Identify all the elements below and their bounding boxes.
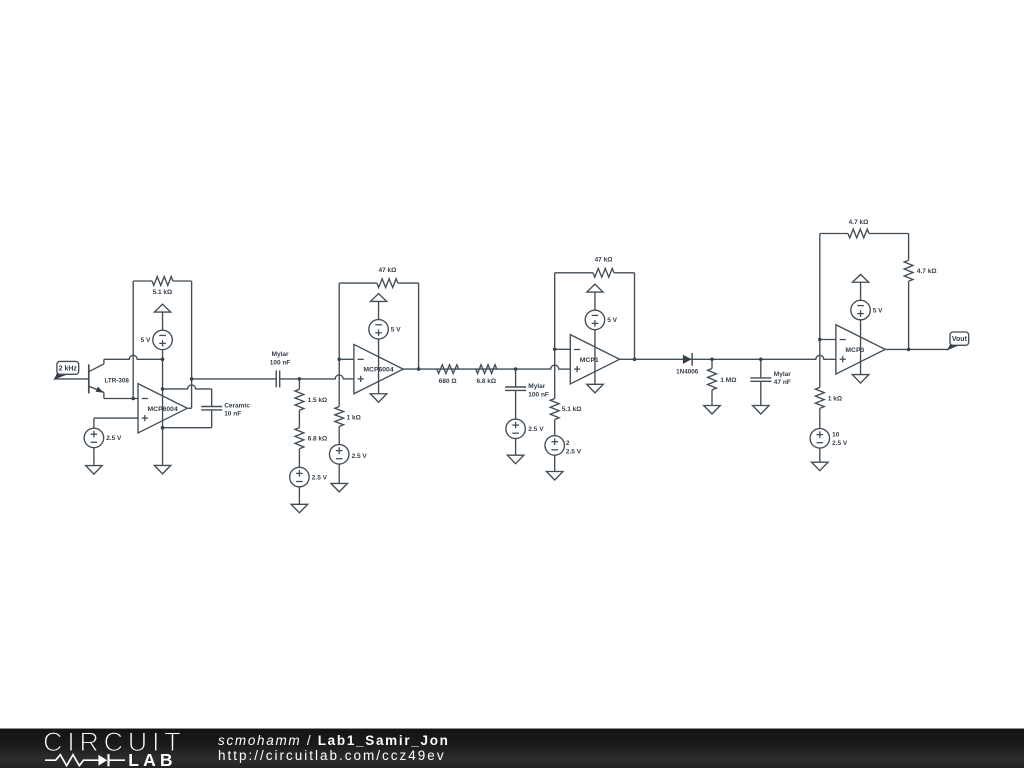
- label R6 value: [439, 378, 457, 385]
- op-amp U2 MCP6004: [354, 344, 403, 393]
- node junction bypass cap top: [161, 387, 165, 391]
- resistor R6 680 &#937;: [437, 365, 459, 374]
- CircuitLab logo LAB text: [128, 752, 177, 768]
- ground V8: [546, 472, 563, 481]
- resistor R12 1 k&#937;: [815, 387, 824, 428]
- VCC arrow stage 2: [370, 294, 386, 320]
- svg-text:MCP3: MCP3: [845, 347, 864, 354]
- resistor R3 6.8 k&#937;: [295, 410, 304, 467]
- label V5 value: [352, 453, 368, 460]
- input source V1 2 kHz label flag: [54, 361, 78, 379]
- diode D1 1N4006: [683, 353, 692, 366]
- wire stage3 feedback right vertical: [634, 273, 636, 360]
- resistor R7 6.8 k&#937;: [476, 365, 497, 374]
- svg-text:Mylar: Mylar: [528, 383, 545, 390]
- svg-text:2.5 V: 2.5 V: [528, 426, 544, 433]
- node detector R junction: [710, 358, 714, 362]
- label V2 value: [141, 337, 151, 344]
- svg-text:MCP1: MCP1: [580, 357, 599, 364]
- label C4 value: [774, 371, 791, 386]
- wire V3 to ground: [93, 447, 95, 465]
- wire feedback right vertical / output stub: [187, 281, 191, 408]
- capacitor C2 Mylar 100 nF (coupling): [276, 370, 280, 387]
- wire stage4 inverting input: [820, 339, 836, 341]
- wire stage3 feedback top: [555, 272, 593, 274]
- svg-text:680 Ω: 680 Ω: [439, 378, 457, 385]
- label R7 value: [476, 378, 496, 385]
- svg-text:2.5 V: 2.5 V: [832, 440, 848, 447]
- label R12 value: [828, 396, 842, 403]
- capacitor C1 Ceramic 10 nF (bypass): [201, 407, 222, 410]
- label V7 value: [528, 426, 544, 433]
- voltage source V4 2.5 V: [290, 467, 310, 487]
- svg-text:5 V: 5 V: [607, 317, 617, 324]
- label R8 value: [595, 257, 613, 264]
- resistor R11 4.7 k&#937; (feedback): [848, 229, 909, 238]
- svg-text:2.5 V: 2.5 V: [566, 449, 582, 456]
- label V3 value: [106, 435, 122, 442]
- svg-text:5 V: 5 V: [141, 337, 151, 344]
- capacitor C3 Mylar 100 nF (filter): [505, 387, 526, 390]
- wire bypass cap top (hop over output): [163, 385, 212, 407]
- wire stage4 gain leg vertical: [819, 340, 821, 388]
- resistor R8 47 k&#937; (feedback): [593, 268, 635, 277]
- svg-text:2.5 V: 2.5 V: [106, 435, 122, 442]
- voltage source V11 5 V: [851, 300, 871, 320]
- CircuitLab logo wordmark: [43, 729, 185, 756]
- op-amp U4 MCP3: [836, 325, 885, 374]
- ground stage 3 power: [587, 384, 604, 393]
- svg-text:6.8 kΩ: 6.8 kΩ: [476, 378, 496, 385]
- wire non-inverting input stage 1: [94, 418, 138, 428]
- node stage4 inverting junction: [818, 338, 822, 342]
- svg-text:5 V: 5 V: [873, 307, 883, 314]
- CircuitLab logo schematic glyph: [45, 753, 129, 767]
- svg-text:1 kΩ: 1 kΩ: [828, 396, 842, 403]
- wire V8 to ground: [554, 455, 556, 472]
- label C3 value: [528, 383, 549, 398]
- footer bar: [0, 728, 1024, 768]
- svg-text:Mylar: Mylar: [272, 351, 289, 358]
- node filter cap junction: [514, 367, 518, 371]
- ground R10: [704, 406, 721, 415]
- ground V4: [291, 504, 308, 513]
- node junction emitter / feedback: [131, 397, 135, 401]
- svg-text:4.7 kΩ: 4.7 kΩ: [917, 268, 937, 275]
- svg-text:Ceramic: Ceramic: [224, 403, 250, 410]
- ground C4: [753, 406, 770, 415]
- resistor R2 1.5 k&#937;: [295, 379, 304, 410]
- node stage2 output junction: [417, 367, 421, 371]
- svg-text:Mylar: Mylar: [774, 371, 791, 378]
- node output junction stage 1: [190, 377, 194, 381]
- wire coupling cap to divider node: [280, 378, 300, 380]
- node stage2 inverting junction: [337, 358, 341, 362]
- ground stage 4 power: [852, 375, 869, 384]
- wire V11 to op-amp V+ pin: [860, 320, 862, 375]
- wire stage3 inverting input: [555, 348, 571, 350]
- footer url text: [218, 749, 446, 763]
- voltage source V2 5 V: [153, 330, 173, 350]
- wire detector cap top: [760, 359, 762, 378]
- svg-text:47 kΩ: 47 kΩ: [378, 267, 396, 274]
- voltage source V9 5 V: [585, 310, 605, 330]
- wire input to phototransistor base: [54, 378, 88, 380]
- ground stage 1 power: [154, 465, 171, 474]
- wire V4 to ground: [298, 487, 300, 505]
- label C1 value: [224, 403, 250, 418]
- VCC arrow stage 3: [587, 284, 603, 310]
- resistor R13 4.7 k&#937;: [904, 260, 913, 349]
- wire detector cap to ground: [760, 381, 762, 405]
- wire filter cap top: [515, 369, 517, 387]
- label R10 value: [720, 377, 736, 384]
- label R4 value: [378, 267, 396, 274]
- wire stage2 inverting input: [339, 358, 354, 360]
- svg-text:10: 10: [832, 431, 840, 438]
- wire bypass cap bottom: [163, 410, 212, 428]
- svg-text:2 kHz: 2 kHz: [59, 366, 78, 373]
- wire collector to 5V node (hop over feedback wire): [104, 355, 163, 359]
- svg-text:5 V: 5 V: [391, 327, 401, 334]
- label R13 value: [917, 268, 937, 275]
- wire V5 to ground: [338, 464, 340, 484]
- op-amp U3 MCP1: [570, 335, 619, 384]
- svg-text:MCP6004: MCP6004: [363, 367, 393, 374]
- label D1 value: [676, 369, 699, 376]
- label V8 name and value: [566, 440, 582, 456]
- svg-text:LTR-308: LTR-308: [105, 377, 130, 384]
- wire stage2 gain leg vertical: [338, 359, 340, 406]
- wire stage2 feedback left vertical: [338, 283, 340, 359]
- resistor R4 47 k&#937; (feedback): [377, 279, 419, 288]
- svg-text:5.1 kΩ: 5.1 kΩ: [153, 289, 173, 296]
- VCC arrow stage 4: [852, 274, 868, 300]
- label R9 value: [562, 406, 582, 413]
- wire stage4 feedback left vertical: [819, 234, 821, 340]
- wire stage2 output line (hop over stage3 gain leg): [403, 365, 570, 369]
- node divider junction: [298, 377, 302, 381]
- svg-text:47 nF: 47 nF: [774, 379, 791, 386]
- wire divider node onward (hop over 1k wire): [299, 375, 354, 379]
- capacitor C4 Mylar 47 nF: [750, 378, 771, 381]
- svg-text:2.5 V: 2.5 V: [352, 453, 368, 460]
- ground V10: [812, 462, 829, 471]
- resistor R5 1 k&#937;: [335, 407, 344, 445]
- svg-text:10 nF: 10 nF: [224, 411, 241, 418]
- wire V7 to ground: [515, 438, 517, 455]
- label V11 value: [873, 307, 883, 314]
- voltage source V6 5 V: [369, 320, 389, 340]
- svg-text:5.1 kΩ: 5.1 kΩ: [562, 406, 582, 413]
- node stage3 output junction: [633, 358, 637, 362]
- wire stage4 feedback top left: [820, 233, 848, 235]
- label V10 name and value: [832, 431, 848, 447]
- label V4 value: [312, 474, 328, 481]
- svg-text:4.7 kΩ: 4.7 kΩ: [849, 219, 869, 226]
- wire stage1 output to coupling cap: [192, 378, 277, 380]
- label V6 value: [391, 327, 401, 334]
- node junction bypass cap bottom: [161, 426, 165, 430]
- ground V7: [507, 455, 523, 464]
- label C2 value: [270, 351, 291, 366]
- ground stage 2 power: [370, 394, 387, 403]
- svg-text:1 kΩ: 1 kΩ: [347, 415, 361, 422]
- ground V5: [331, 483, 348, 492]
- phototransistor Q1 LTR-308: [89, 359, 130, 398]
- wire stage4 feedback right vertical top: [908, 234, 910, 261]
- label R5 value: [347, 415, 361, 422]
- wire 5V to op-amp V+ pin: [162, 349, 164, 465]
- svg-text:1.5 kΩ: 1.5 kΩ: [308, 397, 328, 404]
- svg-text:100 nF: 100 nF: [528, 391, 549, 398]
- node stage4 output junction: [907, 348, 911, 352]
- svg-text:2: 2: [566, 440, 570, 447]
- resistor R10 1 M&#937;: [708, 359, 717, 405]
- wire stage3 gain leg vertical: [554, 349, 556, 398]
- VCC arrow stage 1: [154, 304, 170, 330]
- svg-text:MCP6004: MCP6004: [148, 406, 178, 413]
- wire V10 to ground: [819, 448, 821, 462]
- wire stage4 output line: [885, 348, 948, 350]
- label V9 value: [607, 317, 617, 324]
- wire V9 to op-amp V+ pin: [594, 329, 596, 384]
- svg-text:47 kΩ: 47 kΩ: [595, 257, 613, 264]
- ground V3: [86, 466, 103, 475]
- voltage source V10 2.5 V: [810, 429, 830, 449]
- svg-text:2.5 V: 2.5 V: [312, 474, 328, 481]
- wire stage3 feedback left vertical: [554, 273, 556, 350]
- wire stage2 feedback right vertical: [418, 283, 420, 369]
- wire emitter to op-amp inverting input: [104, 398, 138, 400]
- wire feedback left vertical: [132, 281, 134, 399]
- wire stage2 feedback top: [339, 282, 377, 284]
- svg-text:100 nF: 100 nF: [270, 360, 291, 367]
- label R11 value: [849, 219, 869, 226]
- footer title text: [218, 734, 450, 748]
- label R2 value: [308, 397, 328, 404]
- resistor R1 5.1 k&#937; (feedback): [133, 277, 191, 286]
- voltage source V8 2.5 V: [545, 436, 565, 456]
- svg-text:6.8 kΩ: 6.8 kΩ: [308, 436, 328, 443]
- svg-text:1N4006: 1N4006: [676, 369, 699, 376]
- wire V6 to op-amp V+ pin: [378, 339, 380, 394]
- label R1 value: [153, 289, 173, 296]
- voltage source V7 2.5 V: [506, 419, 526, 439]
- voltage source V3 2.5 V: [84, 428, 104, 448]
- wire stage3 output line (hop over stage4 gain leg): [620, 355, 836, 359]
- svg-text:Vout: Vout: [952, 336, 968, 343]
- op-amp U1 MCP6004: [138, 384, 187, 433]
- resistor R9 5.1 k&#937;: [550, 399, 559, 436]
- svg-text:1 MΩ: 1 MΩ: [720, 377, 736, 384]
- node stage3 inverting junction: [553, 348, 557, 352]
- label R3 value: [308, 436, 328, 443]
- voltage source V5 2.5 V: [329, 445, 349, 465]
- output label flag Vout: [948, 332, 969, 350]
- node detector C junction: [759, 358, 763, 362]
- node junction collector/5V: [161, 358, 165, 362]
- wire filter cap to V7: [515, 390, 517, 419]
